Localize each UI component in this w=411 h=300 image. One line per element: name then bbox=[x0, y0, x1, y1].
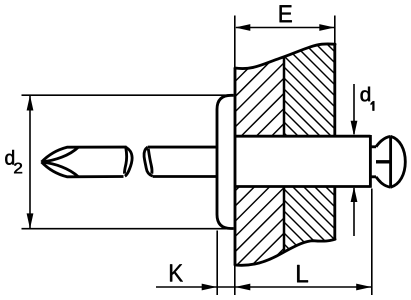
label d2 subscript 2 bbox=[14, 163, 22, 174]
label K bbox=[170, 264, 183, 281]
right plate right edge (upper) bbox=[333, 44, 336, 136]
label L bbox=[297, 265, 308, 282]
dimension L: line with arrows bbox=[217, 286, 371, 288]
dimension d1: lower line and arrow bbox=[353, 188, 355, 236]
rivet shank body bbox=[235, 135, 370, 188]
dimension d1: upper line and arrow bbox=[353, 84, 355, 134]
plate joint line between the two sheets (upper) bbox=[283, 57, 286, 136]
dimension L: extension lines bbox=[234, 266, 236, 295]
plate bottom break-line edge bbox=[235, 239, 335, 265]
mandrel head (dome) bbox=[370, 136, 405, 187]
plate joint line between the two sheets (lower) bbox=[283, 187, 286, 252]
label d1 letter d bbox=[361, 87, 370, 102]
hatching left plate bottom block bbox=[126, 0, 411, 300]
right plate right edge (lower) bbox=[333, 187, 336, 240]
mandrel stem piece 1 with spear tip bbox=[42, 147, 133, 177]
label d2 letter d bbox=[5, 150, 14, 165]
dimension E: extension lines bbox=[234, 16, 236, 69]
left plate left edge (against rivet flange) bbox=[234, 68, 237, 265]
dimension d2: dimension line with arrows bbox=[29, 96, 31, 228]
dimension E: dimension line with arrows bbox=[236, 27, 334, 29]
label E bbox=[280, 5, 292, 22]
hatching right plate top block bbox=[118, 0, 411, 267]
plate top break-line edge bbox=[235, 44, 335, 69]
rivet flange (head) bbox=[217, 95, 234, 228]
dimension K: line with arrow bbox=[156, 286, 217, 288]
mandrel stem piece 2 (break) bbox=[144, 147, 216, 176]
label d1 subscript 1 bbox=[371, 101, 375, 110]
dimension K: extension line bbox=[216, 231, 218, 296]
dimension d2: extension lines bbox=[22, 94, 234, 96]
